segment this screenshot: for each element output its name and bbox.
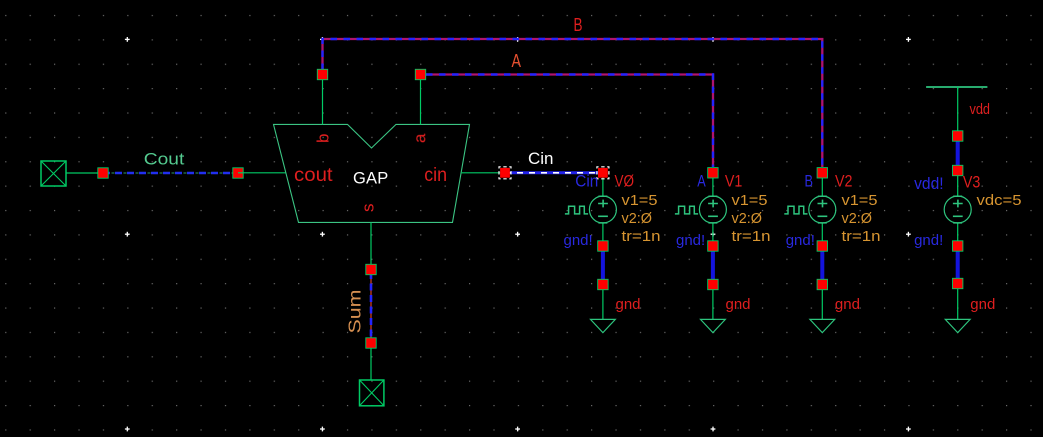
wire Cout (blue dashed over green) bbox=[103, 172, 238, 174]
pin square (selected) bbox=[597, 167, 609, 179]
pin squares gnd wire bbox=[598, 241, 608, 251]
pin square Cout-left bbox=[98, 168, 108, 178]
pin square cin-left (selected) bbox=[499, 167, 511, 179]
svg-text:A: A bbox=[697, 173, 706, 191]
svg-text:v2:Ø: v2:Ø bbox=[622, 210, 653, 227]
svg-text:V2: V2 bbox=[835, 173, 853, 191]
svg-text:gnd: gnd bbox=[970, 296, 995, 313]
svg-text:gnd: gnd bbox=[616, 296, 641, 313]
vsource V0 bbox=[589, 196, 616, 223]
svg-text:v2:Ø: v2:Ø bbox=[842, 210, 873, 227]
svg-text:vdc=5: vdc=5 bbox=[977, 192, 1022, 209]
svg-text:gnd: gnd bbox=[835, 296, 860, 313]
svg-text:Cout: Cout bbox=[144, 150, 185, 169]
svg-text:gnd!: gnd! bbox=[676, 232, 705, 249]
svg-text:B: B bbox=[805, 173, 814, 191]
wire from pin to GAP cout bbox=[238, 172, 286, 174]
wire Sum (blue dashed over red) bbox=[370, 272, 372, 341]
svg-text:v1=5: v1=5 bbox=[842, 192, 878, 209]
op GAP symbol (trapezoid with notch) bbox=[274, 124, 470, 222]
svg-text:cin: cin bbox=[424, 165, 447, 186]
svg-text:tr=1n: tr=1n bbox=[622, 228, 661, 245]
GAP pin stub cin bbox=[461, 172, 505, 174]
svg-text:cout: cout bbox=[294, 165, 333, 186]
GAP pin stub a bbox=[420, 79, 422, 124]
svg-text:gnd!: gnd! bbox=[564, 232, 593, 249]
pin square sum-top bbox=[366, 264, 376, 274]
svg-text:B: B bbox=[574, 15, 583, 35]
wire circle to gnd bbox=[602, 223, 604, 319]
pin square b bbox=[317, 69, 327, 79]
wire Cin (blue with white dashes, selected) bbox=[505, 171, 603, 174]
svg-text:v1=5: v1=5 bbox=[622, 192, 658, 209]
pulse icon bbox=[565, 206, 588, 214]
svg-text:tr=1n: tr=1n bbox=[842, 228, 881, 245]
svg-text:V1: V1 bbox=[725, 173, 743, 191]
ground bbox=[591, 319, 616, 332]
svg-text:A: A bbox=[512, 51, 522, 71]
svg-text:s: s bbox=[359, 204, 378, 213]
svg-text:tr=1n: tr=1n bbox=[732, 228, 771, 245]
svg-text:vdd: vdd bbox=[970, 102, 991, 118]
wire A (blue/magenta alternating) bbox=[426, 75, 713, 168]
vdd rail bbox=[926, 86, 987, 88]
svg-text:GAP: GAP bbox=[353, 170, 388, 188]
pin square sum-bottom bbox=[366, 338, 376, 348]
pin square a bbox=[415, 69, 425, 79]
port Sum (box with X) bbox=[360, 380, 384, 406]
svg-text:Cin: Cin bbox=[575, 173, 598, 191]
blue wire segments bbox=[956, 136, 960, 171]
svg-text:v2:Ø: v2:Ø bbox=[732, 210, 763, 227]
svg-text:Sum: Sum bbox=[345, 290, 365, 334]
wire stub from Cout port to pin bbox=[66, 172, 98, 174]
svg-text:gnd: gnd bbox=[726, 296, 751, 313]
svg-text:gnd!: gnd! bbox=[786, 232, 815, 249]
wire to Sum port bbox=[370, 348, 372, 380]
svg-text:Cin: Cin bbox=[528, 149, 554, 168]
port Cout (box with X) bbox=[41, 161, 66, 186]
GAP pin stub s bbox=[370, 222, 372, 268]
svg-text:gnd!: gnd! bbox=[914, 232, 943, 249]
svg-text:V3: V3 bbox=[963, 174, 981, 192]
wire B (blue/magenta alternating) bbox=[323, 39, 823, 167]
pin square Cout-right bbox=[233, 168, 243, 178]
svg-text:VØ: VØ bbox=[615, 173, 635, 191]
svg-text:a: a bbox=[410, 133, 429, 143]
svg-text:vdd!: vdd! bbox=[914, 175, 944, 193]
GAP pin stub b bbox=[322, 79, 324, 124]
blue wire segment bbox=[601, 246, 605, 285]
grid bright crosses bbox=[125, 37, 911, 431]
svg-text:v1=5: v1=5 bbox=[732, 192, 768, 209]
svg-text:b: b bbox=[314, 134, 333, 143]
wire pin to circle bbox=[602, 173, 604, 196]
